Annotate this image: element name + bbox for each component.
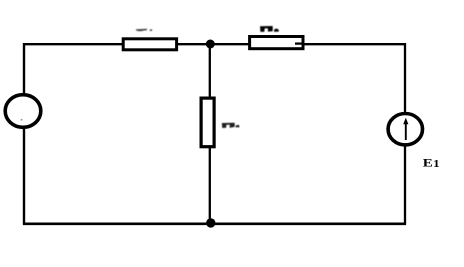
svg-text:E: E (423, 156, 433, 169)
svg-text:1: 1 (433, 158, 440, 169)
